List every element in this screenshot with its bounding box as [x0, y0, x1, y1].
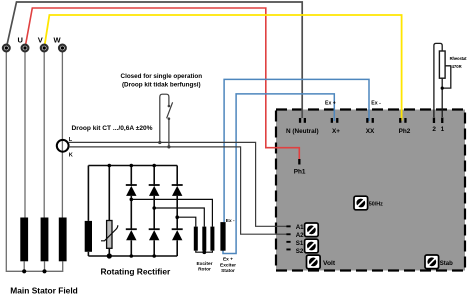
- terminal A2 tick and label: [286, 233, 290, 235]
- diode D2 (upper, column 2): [149, 166, 160, 230]
- terminal S2 tick and label: [286, 249, 290, 251]
- wire: W phase down lead through CT: [61, 48, 63, 218]
- terminal S1 tick and label: [286, 241, 290, 243]
- svg-text:N (Neutral): N (Neutral): [286, 128, 319, 135]
- svg-text:Volt: Volt: [323, 260, 336, 267]
- wire: stator coil V star stub: [44, 261, 46, 271]
- diode D1 (upper, column 1): [126, 166, 137, 230]
- svg-text:X+: X+: [332, 128, 340, 135]
- terminal Ph1 tick: [298, 159, 300, 165]
- terminal N ring: [3, 45, 10, 52]
- svg-text:Rotor: Rotor: [198, 267, 211, 273]
- svg-text:Rotating Rectifier: Rotating Rectifier: [101, 267, 172, 277]
- svg-text:Ex +: Ex +: [325, 101, 336, 107]
- terminal XX ticks: [366, 118, 368, 123]
- terminal X+ ticks: [331, 118, 333, 123]
- wire: blue Ex+ from X+ to exciter stator bottom: [223, 94, 334, 254]
- svg-text:A1: A1: [296, 224, 304, 231]
- wire: field coil bottom to bus: [87, 252, 89, 256]
- terminal V ring: [41, 45, 48, 52]
- rotating rectifier: bottom bus: [88, 255, 177, 257]
- svg-text:(Droop kit tidak berfungsi): (Droop kit tidak berfungsi): [122, 82, 201, 89]
- stator coil V: [41, 218, 49, 262]
- wire: exciter rotor star bus: [196, 251, 213, 253]
- wire: U phase down lead: [24, 48, 26, 218]
- wire: red phase U bus to Ph1: [25, 8, 299, 160]
- wire: stator coil U star stub: [23, 261, 25, 271]
- wire: neutral bus from stator terminal to N (Neutral): [6, 2, 302, 118]
- svg-text:Stator: Stator: [221, 268, 235, 274]
- rotating rectifier: top bus: [88, 165, 177, 167]
- svg-text:2: 2: [432, 126, 436, 133]
- svg-text:Stab: Stab: [440, 261, 453, 267]
- varistor RV1: [101, 164, 118, 259]
- terminal U ring: [22, 45, 29, 52]
- svg-text:Exciter: Exciter: [220, 262, 236, 268]
- screw pot A1/A2: [305, 223, 319, 237]
- svg-text:W: W: [53, 36, 61, 45]
- terminal W ring: [59, 45, 66, 52]
- terminal N (Neutral) ticks: [299, 118, 301, 123]
- wire: yellow phase V bus to Ph2: [44, 15, 401, 121]
- main field coil: [85, 221, 92, 252]
- svg-text:Main Stator Field: Main Stator Field: [10, 286, 77, 296]
- screw pot Volt: [307, 255, 321, 269]
- diode D4 (lower, column 1): [126, 229, 137, 256]
- screw pot Stab: [425, 255, 439, 269]
- svg-text:S2: S2: [296, 248, 304, 255]
- exciter rotor coil 3: [210, 227, 214, 251]
- wire: blue Ex- from XX to exciter stator top: [224, 79, 369, 222]
- svg-text:Exciter: Exciter: [197, 261, 213, 267]
- diode D6 (lower, column 3): [172, 229, 183, 256]
- wire: phase tap 2 to exciter rotor coil 2: [154, 208, 204, 227]
- wire: phase tap 1 to exciter rotor coil 3: [131, 199, 212, 226]
- terminal Ph2 ticks: [399, 118, 401, 123]
- rheostat R1 470R: [434, 43, 451, 117]
- wire: top bus to main field coil: [87, 166, 89, 221]
- svg-text:XX: XX: [366, 128, 375, 135]
- wire: CT secondary L to A1: [69, 142, 288, 226]
- wire: phase tap 3 to exciter rotor coil 1: [177, 217, 196, 226]
- diode D5 (lower, column 2): [149, 229, 160, 256]
- junction: star point dots: [22, 269, 26, 273]
- svg-text:Ph2: Ph2: [399, 128, 411, 135]
- svg-text:1: 1: [441, 126, 445, 133]
- exciter rotor coil 2: [202, 227, 206, 251]
- exciter stator coil: [220, 222, 225, 251]
- svg-text:K: K: [69, 152, 73, 158]
- junction dots on bottom bus: [130, 254, 134, 258]
- wire: V phase down lead: [43, 48, 45, 218]
- svg-text:Ph1: Ph1: [294, 168, 306, 175]
- svg-text:Ex -: Ex -: [226, 218, 235, 224]
- AVR box U1: [276, 110, 465, 271]
- svg-text:470R: 470R: [452, 64, 462, 69]
- screw pot Hz: [354, 196, 368, 210]
- svg-text:Ex +: Ex +: [223, 256, 233, 262]
- svg-text:U: U: [17, 36, 22, 45]
- stator coil U: [20, 218, 28, 262]
- switch S1 (droop shorting): [158, 94, 172, 148]
- stator coil W: [59, 218, 67, 262]
- exciter rotor coil 1: [194, 227, 198, 251]
- terminal A1 tick and label: [286, 225, 290, 227]
- svg-text:50/Hz: 50/Hz: [369, 201, 383, 207]
- droop CT T1: [57, 140, 69, 152]
- terminal 2 tick: [433, 118, 435, 124]
- wire: CT secondary K to A2: [69, 147, 288, 234]
- svg-text:Rheostat: Rheostat: [450, 56, 467, 61]
- diode D3 (upper, column 3): [172, 166, 183, 230]
- screw pot S1/S2: [305, 239, 319, 253]
- svg-text:S1: S1: [296, 240, 304, 247]
- svg-text:Droop kit CT .../0,6A ±20%: Droop kit CT .../0,6A ±20%: [72, 125, 153, 132]
- junction dots on top bus: [130, 164, 134, 168]
- svg-text:Closed for single operation: Closed for single operation: [121, 73, 203, 80]
- terminal 1 tick: [441, 118, 443, 124]
- svg-text:Ex -: Ex -: [371, 101, 381, 107]
- svg-text:A2: A2: [296, 232, 304, 239]
- wire: neutral down lead and stator star bus: [6, 48, 62, 271]
- svg-text:V: V: [38, 36, 43, 45]
